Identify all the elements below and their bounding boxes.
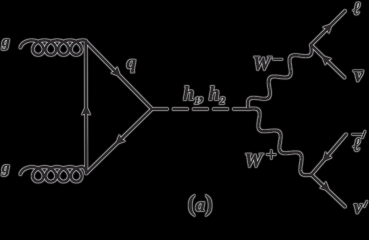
svg-text:g: g [1, 160, 10, 177]
svg-text:ℓ: ℓ [353, 135, 361, 156]
svg-text:g: g [1, 34, 10, 51]
quark loop left side (q, upward) [85, 41, 88, 173]
svg-text:W: W [253, 53, 273, 75]
svg-text:q: q [127, 52, 137, 73]
quark loop top side [86, 41, 152, 109]
gluon g1 (top incoming gluon) [20, 40, 85, 55]
svg-text:h1,h2: h1,h2 [183, 84, 225, 107]
svg-text:(a): (a) [188, 191, 213, 216]
lepton l line (W- -> l) [311, 11, 345, 45]
W- boson wavy line [248, 45, 312, 109]
gluon g2 (bottom incoming gluon) [20, 167, 86, 182]
antilepton lbar-prime line (W+ -> lbar) [312, 135, 347, 175]
antineutrino vbar line (W- -> vbar) [311, 45, 345, 78]
higgs propagator h1,h2 (dashed) [154, 108, 249, 111]
neutrino nu-prime line (W+ -> nu) [312, 175, 346, 207]
svg-text:ℓ: ℓ [353, 0, 361, 20]
svg-text:W: W [244, 149, 264, 171]
W+ boson wavy line [249, 109, 312, 176]
svg-text:ν: ν [354, 198, 363, 218]
quark loop bottom side [86, 109, 152, 173]
svg-text:ν: ν [354, 66, 363, 87]
